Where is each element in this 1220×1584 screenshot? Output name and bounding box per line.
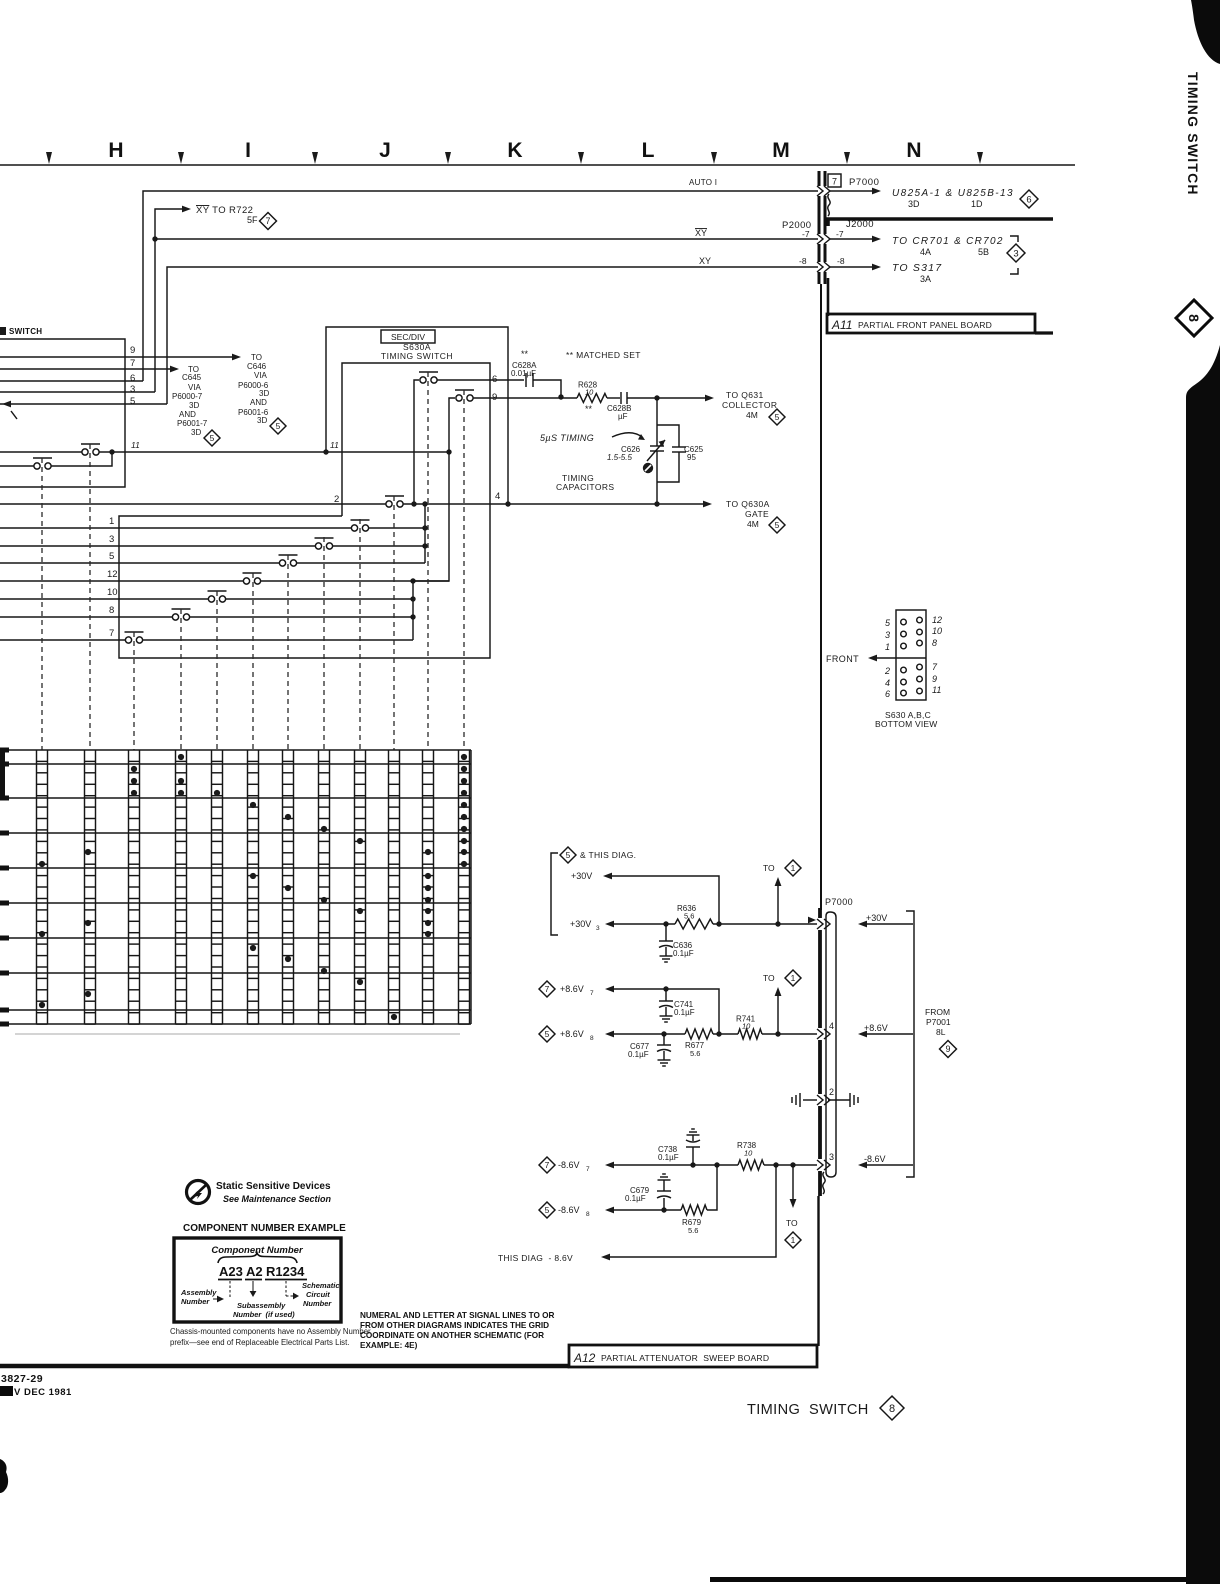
wire: pin5 riser to XY (167, 267, 818, 404)
svg-text:5µS TIMING: 5µS TIMING (540, 433, 594, 443)
note diamond5 & THIS DIAG (560, 847, 576, 863)
wire 12 row (0, 580, 244, 582)
svg-text:µF: µF (618, 412, 628, 421)
svg-text:5.6: 5.6 (690, 1049, 700, 1058)
label SWITCH (clipped) (0, 327, 6, 335)
svg-text:5.6: 5.6 (684, 912, 694, 921)
svg-text:4M: 4M (746, 410, 758, 420)
svg-text:1: 1 (791, 973, 796, 983)
wire 10 row (0, 598, 209, 600)
wire: pin3 riser (155, 209, 183, 392)
svg-text:TIMING SWITCH: TIMING SWITCH (381, 351, 453, 361)
left edge ink blob (0, 1459, 8, 1493)
svg-text:5: 5 (775, 412, 780, 422)
capacitor C741 (665, 989, 667, 1001)
svg-text:1.5-5.5: 1.5-5.5 (607, 453, 632, 462)
capacitor C738 (692, 1147, 694, 1165)
svg-text:6: 6 (130, 373, 135, 384)
svg-text:-8.6V: -8.6V (558, 1160, 580, 1170)
XY-bar mating chevrons (817, 234, 823, 244)
A12 board boundary line (0, 1364, 569, 1369)
lower aux contact row (0, 465, 37, 467)
parallel branch for C625 (657, 425, 679, 482)
squiggle below pin 3 (823, 1172, 825, 1194)
chart left-edge stubs (0, 748, 5, 798)
svg-text:3D: 3D (259, 389, 269, 398)
svg-text:2: 2 (884, 666, 890, 676)
svg-text:5F: 5F (247, 215, 258, 225)
S630A outer box (326, 327, 508, 504)
wire AUTO I to U825 (830, 190, 874, 192)
svg-text:4: 4 (495, 491, 500, 502)
svg-text:XY: XY (695, 228, 707, 238)
svg-text:TO S317: TO S317 (892, 262, 942, 274)
svg-text:-8: -8 (799, 256, 807, 266)
svg-text:-8: -8 (837, 256, 845, 266)
svg-text:5: 5 (545, 1205, 550, 1215)
svg-text:12: 12 (932, 615, 942, 625)
leader lines (229, 1281, 231, 1297)
chart closure dots (178, 754, 184, 760)
svg-text:+30V: +30V (570, 919, 591, 929)
capacitor C628A (525, 373, 527, 387)
svg-text:M: M (772, 139, 790, 162)
svg-text:TO CR701 & CR702: TO CR701 & CR702 (892, 236, 1004, 247)
resistor R741 (713, 1033, 738, 1035)
svg-text:Subassembly: Subassembly (237, 1301, 286, 1310)
board edge vertical line down to A12 (820, 284, 822, 910)
svg-text:XY: XY (699, 256, 711, 266)
svg-text:8: 8 (932, 638, 937, 648)
wire pin7 to C645 arrow (170, 366, 179, 373)
svg-text:1: 1 (109, 516, 114, 527)
svg-text:7: 7 (590, 990, 594, 997)
svg-text:11: 11 (131, 440, 140, 450)
C626 adjustment mark (643, 463, 653, 473)
svg-text:3A: 3A (920, 274, 931, 284)
svg-text:FROM OTHER DIAGRAMS INDICATES: FROM OTHER DIAGRAMS INDICATES THE GRID (360, 1321, 549, 1330)
svg-text:-8.6V: -8.6V (558, 1205, 580, 1215)
svg-text:J: J (379, 139, 391, 162)
svg-text:VIA: VIA (254, 371, 268, 380)
svg-text:SEC/DIV: SEC/DIV (391, 332, 425, 342)
resistor R628 (577, 394, 607, 403)
svg-text:5: 5 (566, 850, 571, 860)
timing capacitor net vertical (656, 398, 658, 446)
S630A inner box outline (119, 363, 490, 658)
svg-text:12: 12 (107, 569, 118, 580)
svg-text:TO: TO (251, 353, 262, 362)
svg-text:3D: 3D (191, 428, 201, 437)
svg-text:8: 8 (889, 1403, 895, 1415)
svg-text:A12: A12 (573, 1351, 596, 1365)
svg-text:C646: C646 (247, 362, 267, 371)
svg-text:TIMING SWITCH: TIMING SWITCH (747, 1402, 869, 1418)
svg-text:V DEC 1981: V DEC 1981 (14, 1387, 72, 1398)
pin feed arrow at +30V (808, 917, 816, 924)
svg-text:Assembly: Assembly (180, 1288, 217, 1297)
resistor R636 (675, 919, 713, 929)
svg-text:1: 1 (791, 863, 796, 873)
connector pin 7 boxed label (828, 174, 841, 187)
svg-text:7: 7 (545, 984, 550, 994)
node: riser tap for XY-bar line (152, 236, 157, 241)
TO diamond1 down arrow (792, 1165, 794, 1200)
resistor R677 (685, 1029, 713, 1039)
svg-text:Schematic: Schematic (302, 1281, 340, 1290)
wire: XY-bar line to P2000-7 (155, 238, 818, 240)
svg-text:AND: AND (179, 410, 196, 419)
static sensitive devices icon (187, 1181, 210, 1204)
wire XY-bar to CR701 (830, 238, 874, 240)
faint line under chart (15, 1033, 460, 1035)
svg-text:TO Q631: TO Q631 (726, 390, 764, 400)
svg-text:10: 10 (107, 587, 118, 598)
svg-text:AND: AND (250, 398, 267, 407)
svg-text:I: I (245, 139, 251, 162)
svg-text:THIS DIAG - 8.6V: THIS DIAG - 8.6V (498, 1253, 573, 1263)
svg-text:1: 1 (791, 1235, 796, 1245)
svg-text:2: 2 (334, 494, 339, 505)
svg-text:0.1µF: 0.1µF (673, 949, 694, 958)
wire 2 row (0, 503, 390, 505)
svg-text:7: 7 (130, 358, 135, 369)
off-board squiggle below AUTO I (828, 194, 830, 216)
svg-text:10: 10 (742, 1022, 751, 1031)
svg-text:L: L (642, 139, 655, 162)
connector P7000 board-edge double bar (top) (818, 171, 821, 186)
svg-text:See Maintenance Section: See Maintenance Section (223, 1194, 332, 1204)
svg-text:7: 7 (266, 216, 271, 226)
row 6 output contact (419, 371, 438, 373)
wire 3 row (0, 545, 316, 547)
svg-text:10: 10 (585, 388, 594, 397)
-8.6V_7 rail (539, 1157, 555, 1173)
cam switch closure chart (0, 749, 471, 751)
svg-text:5: 5 (775, 520, 780, 530)
svg-text:COORDINATE ON ANOTHER SCHEMATI: COORDINATE ON ANOTHER SCHEMATIC (FOR (360, 1331, 544, 1340)
tab diamond 8 (1176, 300, 1212, 336)
svg-text:TO: TO (763, 863, 775, 873)
svg-text:AUTO I: AUTO I (689, 178, 717, 187)
svg-text:7: 7 (586, 1166, 590, 1173)
svg-text:A23: A23 (219, 1264, 243, 1279)
page-edge arrow on pin5 wire (2, 401, 11, 408)
svg-text:0.01µF: 0.01µF (511, 369, 536, 378)
svg-text:P6000-7: P6000-7 (172, 392, 203, 401)
svg-text:P7001: P7001 (926, 1017, 951, 1027)
resistor R679 (681, 1205, 707, 1215)
capacitor C679 (658, 1179, 671, 1181)
wire pin9 to C646 arrow (232, 354, 241, 361)
svg-text:3: 3 (596, 925, 600, 932)
svg-text:** MATCHED SET: ** MATCHED SET (566, 350, 641, 360)
svg-text:0.1µF: 0.1µF (625, 1194, 646, 1203)
svg-text:TO: TO (786, 1218, 798, 1228)
svg-text:8: 8 (109, 605, 114, 616)
svg-text:U825A-1 & U825B-13: U825A-1 & U825B-13 (892, 188, 1014, 199)
svg-text:NUMERAL AND LETTER AT SIGNAL L: NUMERAL AND LETTER AT SIGNAL LINES TO OR (360, 1311, 554, 1320)
svg-text:+8.6V: +8.6V (560, 1029, 584, 1039)
svg-text:5: 5 (545, 1029, 550, 1039)
svg-text:P6001-7: P6001-7 (177, 419, 208, 428)
svg-text:9: 9 (946, 1044, 951, 1054)
AUTO I mating chevrons (817, 186, 823, 196)
svg-text:+8.6V: +8.6V (560, 984, 584, 994)
svg-text:+8.6V: +8.6V (864, 1023, 888, 1033)
svg-text:0.1µF: 0.1µF (658, 1153, 679, 1162)
svg-text:3827-29: 3827-29 (1, 1373, 43, 1385)
ruler tick marks (46, 152, 52, 164)
svg-text:prefix—see end of Replaceable: prefix—see end of Replaceable Electrical… (170, 1338, 349, 1347)
chart column ladders (36, 750, 38, 1024)
svg-text:3: 3 (130, 384, 135, 395)
svg-text:5: 5 (276, 421, 281, 431)
bracket ticks (1010, 236, 1018, 242)
svg-text:P7000: P7000 (849, 177, 879, 188)
svg-text:8: 8 (586, 1211, 590, 1218)
svg-text:11: 11 (330, 440, 339, 450)
svg-text:-8.6V: -8.6V (864, 1154, 886, 1164)
cam actuator dashed lines (41, 458, 43, 750)
svg-text:9: 9 (932, 674, 937, 684)
diamond 3 ref (1007, 244, 1025, 262)
svg-text:8L: 8L (936, 1027, 946, 1037)
svg-text:Static Sensitive Devices: Static Sensitive Devices (216, 1181, 331, 1192)
+8.6V_8 rail (539, 1026, 555, 1042)
svg-text:10: 10 (744, 1149, 753, 1158)
ground pin 2 (803, 1099, 817, 1101)
svg-text:& THIS DIAG.: & THIS DIAG. (580, 850, 636, 860)
wire 5 row (0, 562, 280, 564)
svg-text:+30V: +30V (866, 913, 887, 923)
svg-text:SWITCH: SWITCH (9, 327, 42, 336)
capacitor C677 (663, 1034, 665, 1045)
right side supply arrows (866, 923, 913, 925)
row 9 output contact (455, 389, 474, 391)
wire: pin6 riser to AUTO I (143, 191, 818, 381)
svg-text:5B: 5B (978, 247, 989, 257)
svg-text:95: 95 (687, 453, 696, 462)
svg-text:3: 3 (885, 630, 890, 640)
svg-text:5.6: 5.6 (688, 1226, 698, 1235)
svg-text:10: 10 (932, 626, 942, 636)
svg-text:6: 6 (492, 374, 497, 385)
svg-text:**: ** (521, 349, 529, 359)
SEC/DIV boxed label (381, 330, 435, 343)
black corner wedge top right (1191, 0, 1220, 64)
svg-text:-7: -7 (836, 229, 844, 239)
svg-text:5: 5 (130, 396, 135, 407)
diamond 7 ref (260, 213, 277, 230)
capacitor C625 (672, 446, 686, 448)
S630 connector bottom view (896, 610, 926, 700)
svg-text:VIA: VIA (188, 383, 202, 392)
svg-text:0.1µF: 0.1µF (674, 1008, 695, 1017)
svg-text:TO: TO (763, 973, 775, 983)
svg-text:0.1µF: 0.1µF (628, 1050, 649, 1059)
wire 8 row (0, 616, 173, 618)
svg-text:3: 3 (1013, 248, 1018, 259)
svg-text:Circuit: Circuit (306, 1290, 330, 1299)
svg-text:4A: 4A (920, 247, 931, 257)
capacitor C636 (665, 924, 667, 941)
svg-text:1D: 1D (971, 199, 983, 209)
svg-text:7: 7 (545, 1160, 550, 1170)
bus riser 12-10-8-7 and link to 11 (413, 452, 449, 581)
svg-text:6: 6 (1026, 194, 1031, 205)
diamond 6 ref (1020, 190, 1038, 208)
variable capacitor C626 (650, 445, 664, 447)
FROM P7001 bracket (906, 911, 914, 1177)
svg-text:Chassis-mounted components hav: Chassis-mounted components have no Assem… (170, 1327, 371, 1336)
svg-text:Number (if used): Number (if used) (233, 1310, 295, 1319)
svg-text:GATE: GATE (745, 509, 769, 519)
wire 1 row (0, 527, 352, 529)
svg-text:+30V: +30V (571, 871, 592, 881)
resistor R738 (738, 1160, 764, 1170)
wire XY to S317 (830, 266, 874, 268)
svg-text:XY TO R722: XY TO R722 (196, 205, 253, 216)
bracket for +30V group (551, 853, 558, 935)
svg-text:CAPACITORS: CAPACITORS (556, 482, 614, 492)
wire 11 row (0, 451, 85, 453)
svg-text:2: 2 (829, 1087, 834, 1097)
svg-text:J2000: J2000 (846, 219, 874, 230)
svg-text:3D: 3D (189, 401, 199, 410)
svg-text:9: 9 (492, 392, 497, 403)
wafer pin wires 9,7,6,3,5 (0, 356, 233, 358)
svg-text:9: 9 (130, 345, 135, 356)
svg-text:-7: -7 (802, 229, 810, 239)
THIS DIAG -8.6V tap (610, 1165, 776, 1257)
svg-text:1: 1 (885, 642, 890, 652)
svg-text:4: 4 (829, 1021, 834, 1031)
svg-text:PARTIAL ATTENUATOR SWEEP BOAR: PARTIAL ATTENUATOR SWEEP BOARD (601, 1353, 769, 1363)
left switch wafer box (clipped at page edge) (0, 339, 125, 487)
svg-text:Number: Number (181, 1297, 210, 1306)
A12 partial attenuator sweep board box (569, 1345, 817, 1367)
svg-text:3D: 3D (908, 199, 920, 209)
svg-text:TIMING SWITCH: TIMING SWITCH (1185, 72, 1201, 196)
svg-text:4: 4 (885, 678, 890, 688)
wire 7 row (0, 639, 126, 641)
capacitor C628B (607, 397, 620, 399)
svg-text:A11: A11 (831, 318, 852, 332)
brace (218, 1253, 297, 1263)
svg-text:H: H (108, 139, 123, 162)
svg-text:6: 6 (885, 689, 890, 699)
svg-text:3D: 3D (257, 416, 267, 425)
svg-text:K: K (507, 139, 522, 162)
wire to Q631 (657, 397, 706, 399)
svg-text:5: 5 (210, 433, 215, 443)
bottom page edge line (710, 1577, 1220, 1582)
A11 partial front panel board box (827, 278, 830, 316)
svg-text:3: 3 (829, 1152, 834, 1162)
svg-text:3: 3 (109, 534, 114, 545)
arrow XY-bar TO R722 (182, 206, 191, 213)
svg-text:5: 5 (109, 551, 114, 562)
svg-text:FROM: FROM (925, 1007, 950, 1017)
svg-text:PARTIAL FRONT PANEL BOARD: PARTIAL FRONT PANEL BOARD (858, 320, 992, 330)
svg-text:BOTTOM VIEW: BOTTOM VIEW (875, 719, 938, 729)
svg-text:TO Q630A: TO Q630A (726, 499, 770, 509)
svg-text:P7000: P7000 (825, 897, 853, 907)
svg-text:R1234: R1234 (266, 1264, 305, 1279)
svg-text:8: 8 (590, 1035, 594, 1042)
svg-text:4M: 4M (747, 519, 759, 529)
bus riser 1-3-5 (424, 504, 426, 563)
svg-text:EXAMPLE: 4E): EXAMPLE: 4E) (360, 1341, 418, 1350)
svg-text:Number: Number (303, 1299, 332, 1308)
-8.6V_8 rail (539, 1202, 555, 1218)
svg-text:COMPONENT NUMBER EXAMPLE: COMPONENT NUMBER EXAMPLE (183, 1223, 346, 1234)
thick J2000 interconnect line (828, 219, 1053, 226)
svg-text:C645: C645 (182, 373, 202, 382)
right black edge strip (1186, 345, 1220, 1584)
TO diamond1 up arrow (8.6V) (777, 994, 779, 1034)
footer REV DEC 1981 (left-clipped) (0, 1386, 13, 1396)
svg-text:11: 11 (932, 685, 941, 695)
svg-text:7: 7 (832, 177, 837, 187)
+8.6V_7 feed (539, 981, 555, 997)
svg-text:7: 7 (109, 628, 114, 639)
svg-text:8: 8 (1186, 314, 1202, 322)
svg-text:**: ** (585, 404, 593, 414)
component number example box (174, 1238, 341, 1322)
svg-text:COLLECTOR: COLLECTOR (722, 400, 777, 410)
svg-text:FRONT: FRONT (826, 654, 859, 664)
ruler line (0, 164, 1075, 166)
svg-text:A2: A2 (246, 1264, 263, 1279)
svg-text:N: N (906, 139, 921, 162)
pin chevrons (817, 919, 823, 929)
TO diamond1 up arrow (777, 884, 779, 924)
